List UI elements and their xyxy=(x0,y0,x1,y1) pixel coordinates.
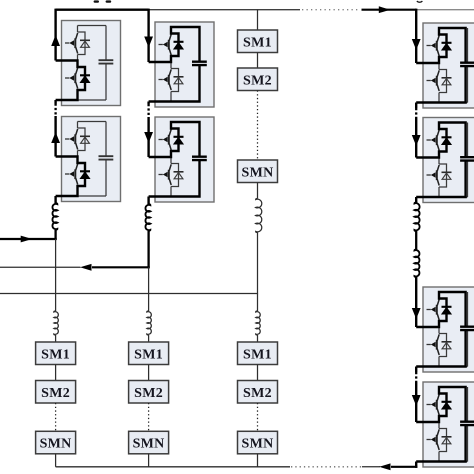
IGBT T2 of submodule cell SMb2 xyxy=(159,164,172,185)
capacitor C of submodule cell SMb1 xyxy=(192,62,207,65)
wire dotted column 3 lower SM2 to SMN xyxy=(257,403,259,431)
IGBT T1 of submodule cell SMr3 xyxy=(427,299,440,320)
wire phase B output line thick part xyxy=(92,266,150,268)
diode D1 of submodule cell SMr1 xyxy=(442,43,452,50)
wire DC negative bus thick segment xyxy=(391,466,417,468)
svg-text:SM2: SM2 xyxy=(243,73,272,88)
svg-text:SMN: SMN xyxy=(241,165,273,180)
svg-text:SM2: SM2 xyxy=(134,386,163,401)
wire column 1 lower SMN to negative bus xyxy=(55,454,57,467)
wire DC positive bus dashed continuation xyxy=(302,9,360,11)
conducting current path inside submodule cell SMb1 xyxy=(149,27,200,102)
diode D1 of submodule cell SMr4 xyxy=(442,402,452,409)
capacitor C of submodule cell SMr3 xyxy=(460,327,474,330)
svg-text:SM1: SM1 xyxy=(243,347,272,362)
submodule cell SMb1 wiring loop xyxy=(171,27,200,102)
inductor right arm reactor upper xyxy=(414,203,419,232)
svg-text:SM1: SM1 xyxy=(134,347,163,362)
wire DC positive bus thick segment xyxy=(56,8,149,10)
arrow arm current upward column 1 lower xyxy=(51,132,60,143)
submodule box SMN column 3 lower xyxy=(238,431,278,454)
svg-text:SM1: SM1 xyxy=(41,347,70,362)
wire right arm vertical upper xyxy=(415,9,417,203)
wire DC positive bus thin segment xyxy=(149,9,300,11)
inductor arm reactor L1 column 1 upper xyxy=(52,203,57,230)
IGBT T2 of submodule cell SMr3 xyxy=(427,334,440,355)
submodule cell SMr1 wiring loop xyxy=(439,28,468,103)
inductor lower arm reactor column 3 xyxy=(256,311,261,335)
arrow phase B current direction xyxy=(80,264,92,271)
conducting current path inside submodule cell SMa2 xyxy=(56,157,85,197)
conducting current path inside submodule cell SMr4 xyxy=(416,387,465,462)
diode D1 of submodule cell SMr3 xyxy=(442,307,452,314)
arrow arm current downward column 2 upper xyxy=(144,37,153,48)
IGBT T1 of submodule cell SMa2 xyxy=(65,129,78,150)
diode D2 of submodule cell SMa2 xyxy=(80,171,90,178)
wire column 3 phase node to lower coil xyxy=(257,294,259,312)
submodule cell SMb2 enclosure xyxy=(155,117,214,202)
cropped label mark left xyxy=(94,0,99,2)
wire positive bus stub right of corner xyxy=(416,9,474,11)
wire dashed link right arm cells 3-4 xyxy=(415,372,417,382)
svg-text:SMN: SMN xyxy=(133,437,165,452)
IGBT T1 of submodule cell SMa1 xyxy=(65,33,78,54)
conducting current path inside submodule cell SMa1 xyxy=(56,61,85,101)
wire right arm vertical lower xyxy=(415,277,417,468)
IGBT T1 of submodule cell SMb2 xyxy=(159,129,172,150)
node phase A tap xyxy=(55,238,57,240)
svg-text:SMN: SMN xyxy=(241,437,273,452)
diode D1 of submodule cell SMb1 xyxy=(174,42,184,49)
svg-text:SMN: SMN xyxy=(40,437,72,452)
submodule cell SMa2 enclosure xyxy=(62,117,121,202)
IGBT T2 of submodule cell SMr1 xyxy=(427,70,440,91)
diode D2 of submodule cell SMb2 xyxy=(174,172,184,179)
diode D2 of submodule cell SMr4 xyxy=(442,437,452,444)
capacitor C of submodule cell SMr2 xyxy=(460,157,474,160)
wire column 2 coil to phase node xyxy=(147,231,149,269)
wire column 3 bus to SM1 xyxy=(257,10,259,30)
arrow arm current downward column 2 lower xyxy=(144,132,153,143)
wire column 3 SMN to coil xyxy=(257,183,259,199)
wire phase-a upper arm vertical xyxy=(54,9,56,204)
submodule box SM1 column 2 lower xyxy=(129,342,169,365)
submodule box SMN column 3 upper xyxy=(238,160,278,183)
inductor arm reactor L2 column 2 upper xyxy=(145,204,150,231)
capacitor C of submodule cell SMr4 xyxy=(460,422,474,425)
svg-text:SM2: SM2 xyxy=(41,386,70,401)
arrow arm current downward right arm cell2 xyxy=(412,135,421,146)
capacitor C of submodule cell SMb2 xyxy=(192,157,207,160)
submodule cell SMr2 enclosure xyxy=(423,118,474,203)
IGBT T2 of submodule cell SMa2 xyxy=(65,164,78,185)
diode D1 of submodule cell SMb2 xyxy=(174,137,184,144)
wire dotted column 3 upper SM2 to SMN xyxy=(257,91,259,161)
inductor lower arm reactor column 2 xyxy=(147,311,152,335)
submodule cell SMr4 enclosure xyxy=(423,382,474,467)
conducting current path inside submodule cell SMb2 xyxy=(149,122,200,197)
diode D1 of submodule cell SMa1 xyxy=(80,40,90,47)
submodule box SM2 column 3 lower xyxy=(238,381,278,404)
wire column 3 SM1 to SM2 xyxy=(257,53,259,69)
wire dotted column 2 lower SM2 to SMN xyxy=(148,403,150,431)
wire column 1 lower coil to SM1 xyxy=(55,335,57,342)
diode D1 of submodule cell SMr2 xyxy=(442,137,452,144)
arrow arm current downward right arm cell3 xyxy=(412,308,421,319)
arrow arm current upward column 1 upper xyxy=(51,35,60,46)
wire phase B output line thin part xyxy=(0,266,81,268)
wire column 3 coil to phase node xyxy=(257,233,259,295)
wire column 2 phase node to lower coil xyxy=(148,267,150,311)
inductor arm reactor column 3 upper xyxy=(256,199,262,233)
wire column 1 phase node to lower coil xyxy=(55,239,57,311)
IGBT T1 of submodule cell SMr2 xyxy=(427,130,440,151)
wire column 3 lower SMN to negative bus xyxy=(257,454,259,467)
cropped label mark right xyxy=(106,0,112,2)
IGBT T2 of submodule cell SMb1 xyxy=(159,69,172,90)
submodule cell SMb1 enclosure xyxy=(155,22,214,107)
submodule box SMN column 1 lower xyxy=(36,431,76,454)
wire column 2 lower coil to SM1 xyxy=(148,335,150,342)
wire column 2 lower SMN to negative bus xyxy=(148,454,150,467)
conducting current path inside submodule cell SMr1 xyxy=(416,28,465,103)
wire DC negative bus dashed continuation xyxy=(291,466,362,468)
IGBT T1 of submodule cell SMb1 xyxy=(159,34,172,55)
wire phase C output line xyxy=(0,293,258,295)
diode D2 of submodule cell SMr2 xyxy=(442,172,452,179)
IGBT T1 of submodule cell SMr1 xyxy=(427,35,440,56)
wire phase-b upper arm vertical xyxy=(147,9,149,205)
submodule cell SMr4 wiring loop xyxy=(439,387,468,462)
wire right arm between reactors xyxy=(415,231,417,250)
submodule box SM1 column 3 upper xyxy=(238,30,278,53)
wire dashed link right arm cells 1-2 xyxy=(415,108,417,118)
inductor lower arm reactor column 1 xyxy=(54,311,59,335)
submodule cell SMr2 wiring loop xyxy=(439,123,468,198)
arrow arm current downward right arm cell1 xyxy=(412,39,421,50)
wire dotted column 1 lower SM2 to SMN xyxy=(55,403,57,431)
IGBT T2 of submodule cell SMr2 xyxy=(427,165,440,186)
arrow Idc current direction on negative bus xyxy=(379,463,391,470)
wire DC positive bus right segment with current direction xyxy=(362,9,417,11)
diode D1 of submodule cell SMa2 xyxy=(80,136,90,143)
submodule box SM1 column 1 lower xyxy=(36,342,76,365)
arrow phase A current direction xyxy=(21,236,33,243)
wire phase A output line xyxy=(0,238,57,240)
wire column 1 coil to phase node xyxy=(54,230,56,240)
capacitor C of submodule cell SMa1 xyxy=(99,60,114,63)
submodule cell SMr3 wiring loop xyxy=(439,292,468,367)
diode D2 of submodule cell SMa1 xyxy=(80,75,90,82)
wire column 2 lower SM1 to SM2 xyxy=(148,365,150,381)
capacitor C of submodule cell SMa2 xyxy=(99,156,114,159)
diode D2 of submodule cell SMb1 xyxy=(174,77,184,84)
capacitor C of submodule cell SMr1 xyxy=(460,63,474,66)
wire column 3 lower coil to SM1 xyxy=(257,335,259,342)
wire dashed link between cells column 2 xyxy=(147,104,149,117)
wire column 1 lower SM1 to SM2 xyxy=(55,365,57,381)
svg-text:SM2: SM2 xyxy=(243,386,272,401)
submodule cell SMa2 wiring loop xyxy=(78,122,107,197)
diode D2 of submodule cell SMr1 xyxy=(442,78,452,85)
submodule box SM2 column 1 lower xyxy=(36,381,76,404)
wire DC negative bus thin segment xyxy=(56,466,290,468)
conducting current path inside submodule cell SMr3 xyxy=(416,292,465,367)
IGBT T2 of submodule cell SMr4 xyxy=(427,429,440,450)
IGBT T2 of submodule cell SMa1 xyxy=(65,68,78,89)
submodule cell SMa1 enclosure xyxy=(62,21,121,106)
cropped label arc mark above right arm xyxy=(417,1,423,2)
arrow Idc current direction on positive bus xyxy=(379,6,391,13)
submodule cell SMr3 enclosure xyxy=(423,287,474,372)
conducting current path inside submodule cell SMr2 xyxy=(416,123,465,198)
inductor right arm reactor lower xyxy=(414,250,419,278)
submodule box SM2 column 2 lower xyxy=(129,381,169,404)
arrow arm current downward right arm cell4 xyxy=(412,395,421,406)
submodule box SMN column 2 lower xyxy=(129,431,169,454)
svg-text:SM1: SM1 xyxy=(243,35,272,50)
submodule cell SMb2 wiring loop xyxy=(171,122,200,197)
wire dashed link between cells column 1 xyxy=(54,104,56,117)
submodule box SM1 column 3 lower xyxy=(238,342,278,365)
IGBT T1 of submodule cell SMr4 xyxy=(427,394,440,415)
wire DC negative bus right thin lead xyxy=(362,466,380,468)
diode D2 of submodule cell SMr3 xyxy=(442,342,452,349)
wire column 3 lower SM1 to SM2 xyxy=(257,365,259,381)
submodule box SM2 column 3 upper xyxy=(238,68,278,91)
submodule cell SMr1 enclosure xyxy=(423,23,474,108)
submodule cell SMa1 wiring loop xyxy=(78,26,107,101)
